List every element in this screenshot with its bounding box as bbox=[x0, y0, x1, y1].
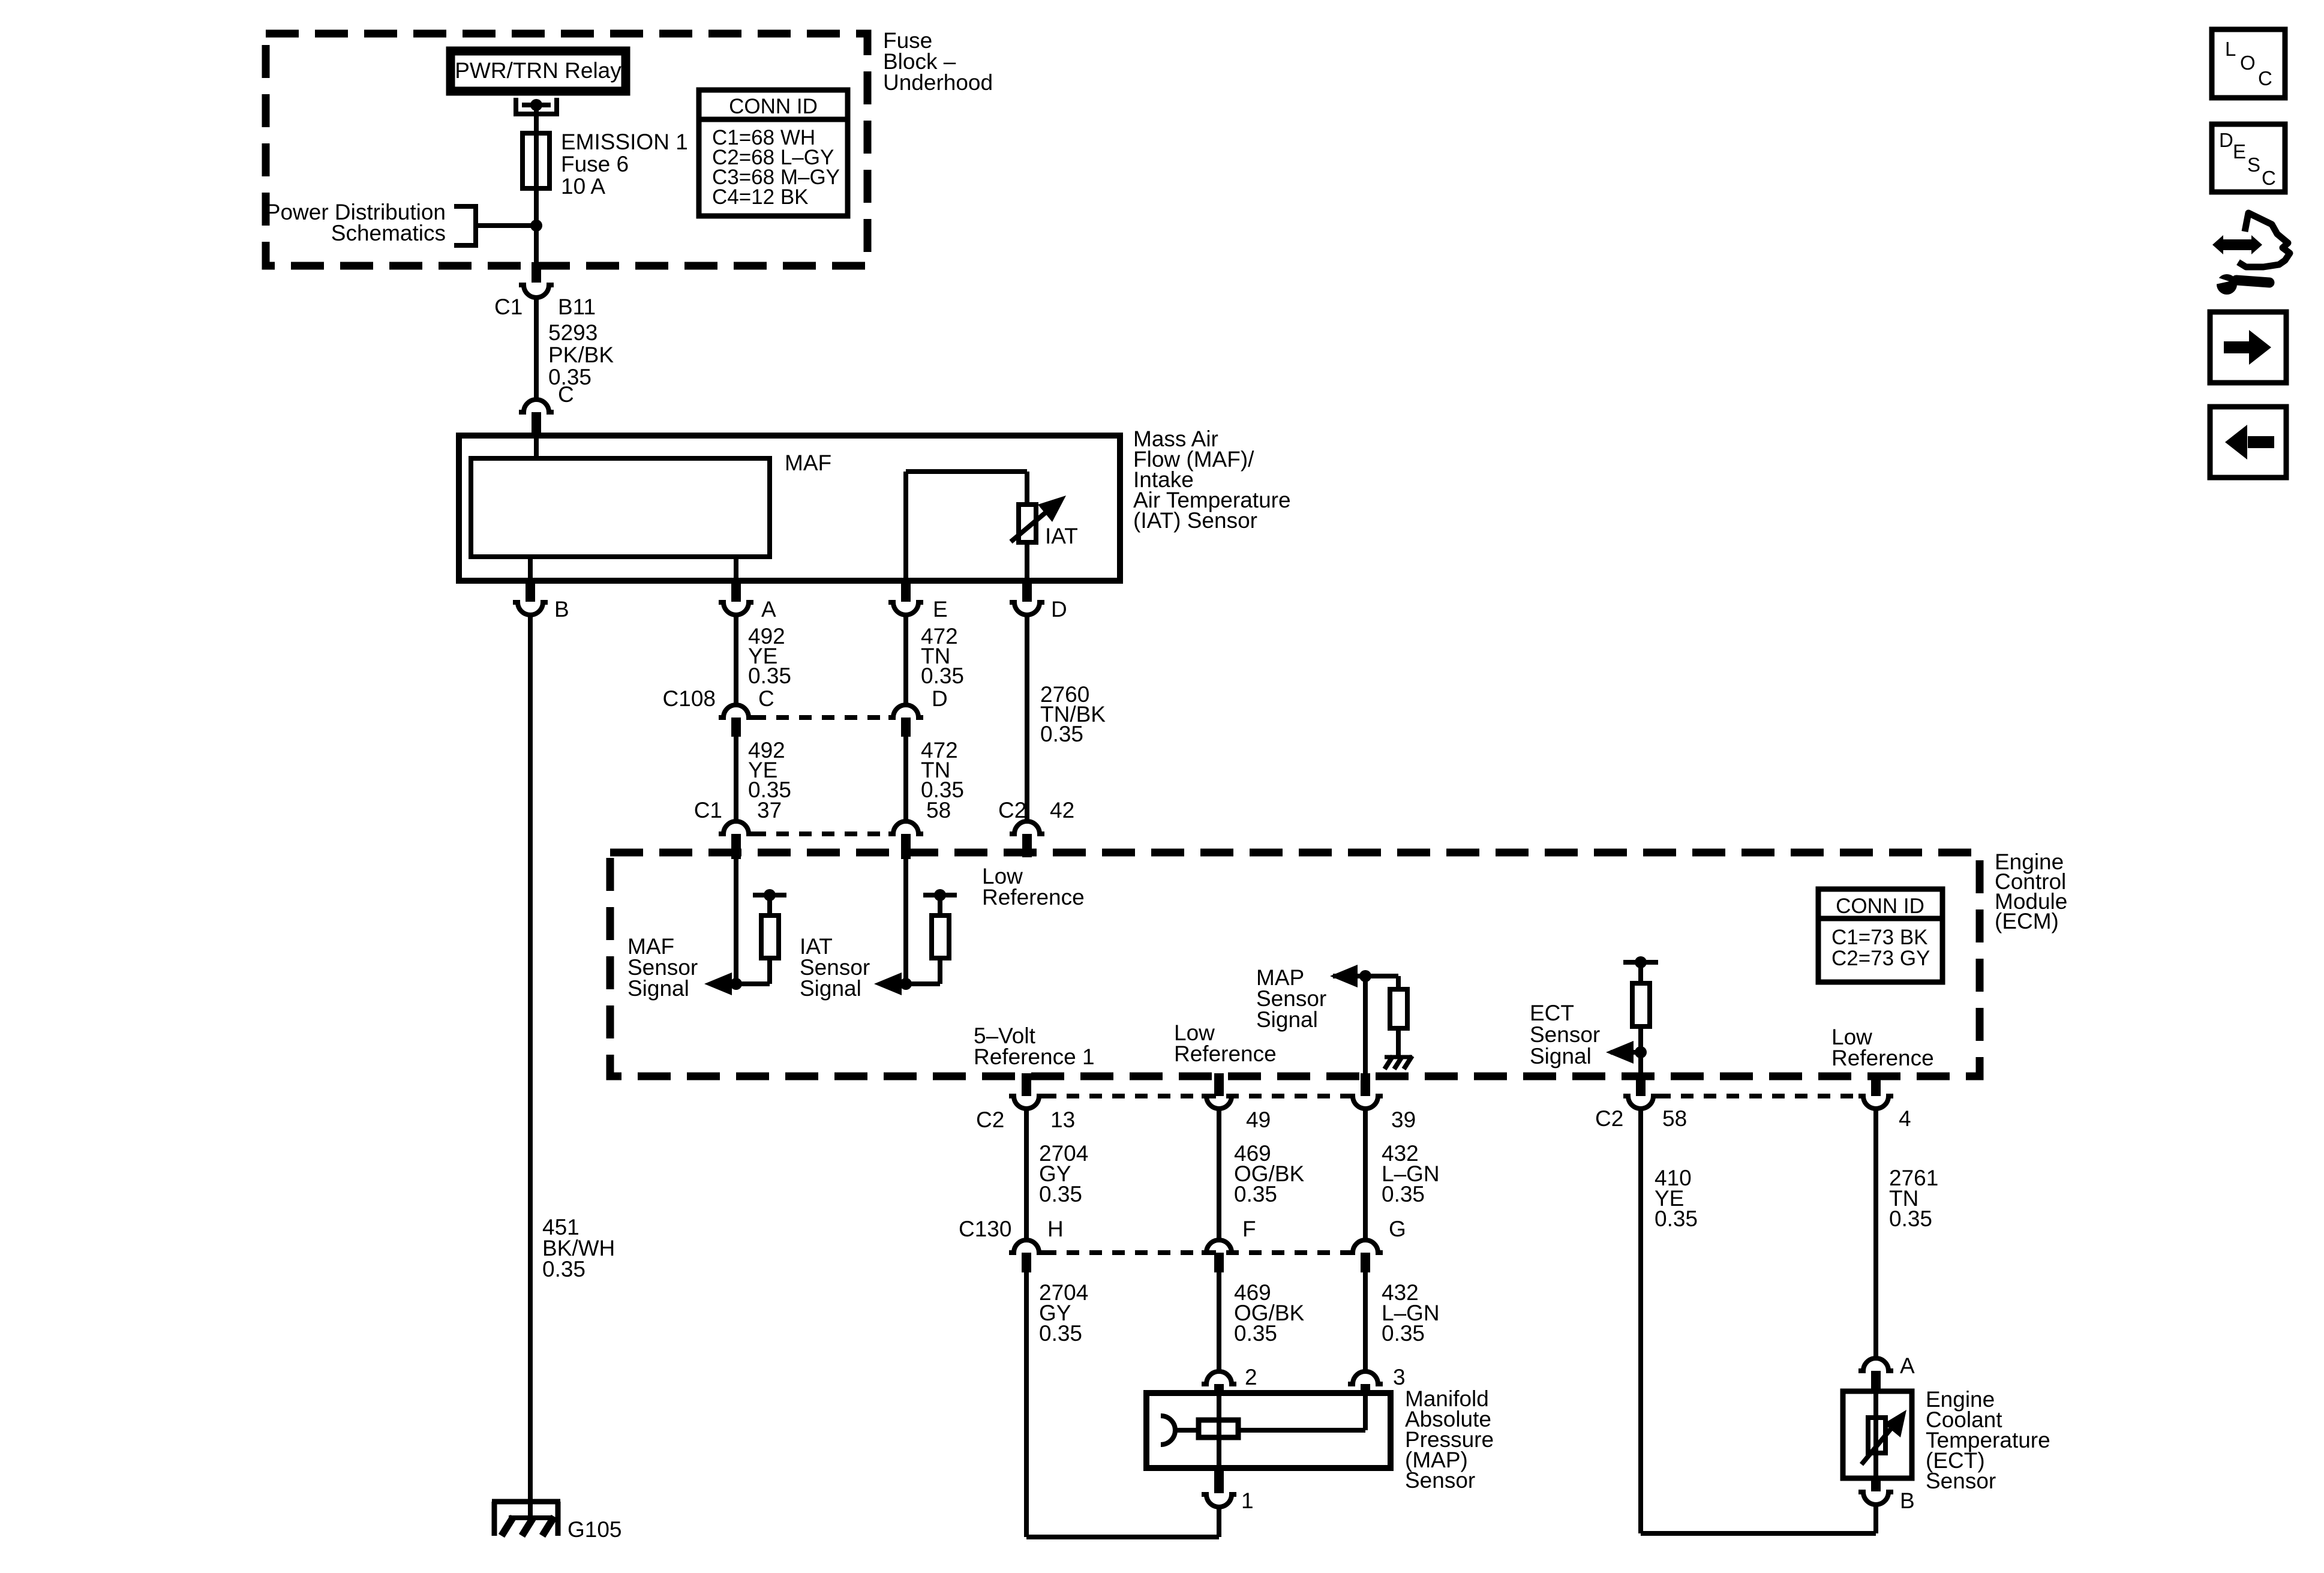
wire 469 OG/BK upper bbox=[1217, 1109, 1221, 1240]
MAF/IAT sensor outer box bbox=[459, 436, 1120, 581]
wire MAP resistor to ground bbox=[1396, 1028, 1401, 1057]
wire 5293 PK/BK bbox=[534, 298, 539, 400]
connector ECM pin 58b bbox=[1623, 1096, 1658, 1109]
svg-text:2: 2 bbox=[1245, 1365, 1257, 1389]
svg-text:4: 4 bbox=[1899, 1106, 1911, 1131]
connector MAF pin B bbox=[513, 602, 548, 615]
svg-text:C1: C1 bbox=[494, 295, 523, 319]
wire resistor upper lead IAT bbox=[938, 895, 942, 915]
wire 2704 GY upper bbox=[1024, 1109, 1029, 1240]
wire MAP signal node bbox=[1333, 974, 1398, 978]
connector C130 pin G bbox=[1348, 1240, 1383, 1253]
wire 469 OG/BK lower bbox=[1217, 1272, 1221, 1373]
stub fuse block exit pin bbox=[532, 262, 541, 283]
wire pin 37 inside ECM bbox=[734, 859, 738, 984]
stub MAF pin D bbox=[1022, 582, 1032, 602]
wire 492 YE lower bbox=[734, 737, 738, 821]
svg-text:B: B bbox=[1900, 1488, 1915, 1513]
wire MAP pin3 internal bbox=[1363, 1390, 1368, 1430]
wire MAP return to C130 H bbox=[1026, 1535, 1219, 1539]
wire 432 L-GN lower bbox=[1363, 1272, 1368, 1373]
svg-text:B: B bbox=[554, 597, 569, 622]
svg-text:F: F bbox=[1242, 1217, 1256, 1241]
svg-text:C: C bbox=[558, 382, 574, 407]
arrow MAF sensor signal bbox=[704, 972, 732, 995]
wire resistor lower lead bbox=[767, 958, 772, 984]
stub MAP pin 1 bbox=[1214, 1471, 1224, 1493]
svg-text:C1=73 BKC2=73 GY: C1=73 BKC2=73 GY bbox=[1831, 926, 1930, 970]
stub pin C bbox=[532, 412, 541, 433]
connector C1 mate dashes bbox=[753, 831, 888, 836]
wire relay to fuse to border bbox=[534, 105, 539, 263]
left arrow icon box bbox=[2210, 407, 2286, 478]
stub pin 37 bbox=[731, 834, 741, 859]
wire 492 YE upper bbox=[734, 615, 738, 705]
wire IAT resistor to pin D bbox=[1025, 542, 1029, 584]
fuse block underhood dashed box bbox=[266, 34, 867, 266]
svg-text:S: S bbox=[2247, 154, 2260, 176]
wire pin 58 C2 inside ECM bbox=[1638, 1052, 1643, 1076]
connector C108 pin D bbox=[888, 705, 923, 718]
svg-text:58: 58 bbox=[926, 798, 951, 822]
svg-text:G105: G105 bbox=[568, 1517, 622, 1542]
connector ECM pin 13 bbox=[1009, 1096, 1044, 1109]
stub ECM pin 13 bbox=[1022, 1073, 1031, 1096]
svg-text:C1: C1 bbox=[694, 798, 722, 822]
stub MAP pin 2 bbox=[1214, 1384, 1224, 1392]
svg-text:MAF: MAF bbox=[785, 451, 831, 475]
connector C108 mate dashes bbox=[753, 715, 888, 720]
wire resistor lower lead IAT bbox=[938, 958, 942, 984]
supply bar ECT bbox=[1623, 960, 1658, 965]
resistor MAP pull-up bbox=[1390, 989, 1407, 1028]
wire ECT pin B down bbox=[1873, 1505, 1878, 1533]
supply bar IAT bbox=[923, 893, 957, 897]
svg-text:G: G bbox=[1389, 1217, 1406, 1241]
svg-text:13: 13 bbox=[1050, 1107, 1075, 1132]
svg-text:A: A bbox=[1900, 1353, 1915, 1378]
stub MAF pin E bbox=[901, 582, 911, 602]
connector ECM pin 49 bbox=[1202, 1096, 1236, 1109]
wire 432 L-GN upper bbox=[1363, 1109, 1368, 1240]
svg-text:42: 42 bbox=[1050, 798, 1074, 822]
wire 410 YE bbox=[1638, 1109, 1643, 1533]
wire ECT through thermistor bbox=[1873, 1389, 1878, 1481]
svg-text:D: D bbox=[2219, 129, 2233, 151]
wire MAF element to pin B bbox=[528, 557, 533, 584]
fuse F6 EMISSION 1 10A bbox=[523, 133, 550, 188]
wire IAT to resistor bbox=[1025, 472, 1029, 505]
stub MAF pin A bbox=[731, 582, 741, 602]
svg-text:L: L bbox=[2225, 38, 2236, 60]
wire 451 BK/WH to G105 bbox=[528, 615, 533, 1519]
svg-text:D: D bbox=[932, 686, 948, 711]
supply bar MAF bbox=[753, 893, 786, 897]
svg-text:E: E bbox=[933, 597, 948, 622]
wire pin C to MAF element bbox=[534, 433, 539, 458]
stub C130 pin F bbox=[1214, 1253, 1224, 1272]
resistor IAT thermistor bbox=[1019, 505, 1036, 542]
connector MAF pin A bbox=[719, 602, 753, 615]
stub ECT pin A bbox=[1871, 1371, 1881, 1390]
wire MAF signal node bbox=[732, 981, 770, 986]
junction supply bar ECT bbox=[1635, 956, 1647, 968]
right arrow icon box bbox=[2210, 312, 2286, 383]
connector C1 terminal B11 bbox=[519, 285, 554, 298]
wire 2704 GY lower bbox=[1024, 1272, 1029, 1537]
relay output terminal bracket bbox=[516, 98, 557, 114]
resistor ECT thermistor bbox=[1868, 1418, 1885, 1453]
connector MAF pin E bbox=[888, 602, 923, 615]
stub ECM pin 58b bbox=[1636, 1073, 1646, 1096]
svg-text:CONN ID: CONN ID bbox=[1836, 894, 1924, 918]
relay K (PWR/TRN Relay) box bbox=[451, 51, 626, 91]
wire 472 TN lower bbox=[903, 737, 908, 821]
wire MAP pin1 down bbox=[1217, 1507, 1221, 1537]
power distribution reference bracket bbox=[454, 206, 476, 245]
connector C130 pin H bbox=[1009, 1240, 1044, 1253]
stub ECM pin 4 bbox=[1871, 1073, 1881, 1096]
MAP sensing element bbox=[1199, 1420, 1238, 1437]
stub MAF pin B bbox=[526, 582, 535, 602]
svg-text:H: H bbox=[1047, 1217, 1064, 1241]
stub C108 pin C bbox=[731, 718, 741, 737]
relay contact bar bbox=[522, 103, 551, 107]
arrow ECT sensor signal bbox=[1606, 1041, 1634, 1064]
svg-text:C: C bbox=[2258, 67, 2272, 89]
stub C108 pin D bbox=[901, 718, 911, 737]
ECT sensor box bbox=[1843, 1391, 1912, 1478]
svg-text:37: 37 bbox=[757, 798, 782, 822]
wire to power distribution bracket bbox=[476, 223, 536, 228]
wire pin 39 inside ECM bbox=[1363, 976, 1368, 1076]
svg-text:EngineControlModule(ECM): EngineControlModule(ECM) bbox=[1995, 849, 2067, 933]
ECT variable-resistance arrow bbox=[1861, 1427, 1893, 1464]
connector C130 mate dashes bbox=[1044, 1250, 1348, 1255]
wire MAP element to pin3 bbox=[1238, 1428, 1365, 1433]
MAP pressure port symbol bbox=[1161, 1416, 1175, 1445]
LOC icon box bbox=[2212, 29, 2285, 98]
ground G105 symbol bbox=[492, 1502, 560, 1536]
connector MAP pin 3 bbox=[1348, 1371, 1383, 1384]
wire port to element bbox=[1175, 1428, 1199, 1433]
connector ECM C2 pin 42 bbox=[1010, 821, 1044, 834]
wire MAP resistor upper lead bbox=[1396, 976, 1401, 989]
connector MAF pin D bbox=[1010, 602, 1044, 615]
svg-text:PWR/TRN Relay: PWR/TRN Relay bbox=[455, 58, 621, 83]
svg-text:58: 58 bbox=[1662, 1106, 1687, 1131]
junction MAF signal bbox=[730, 978, 742, 990]
junction IAT signal bbox=[900, 978, 912, 990]
connector ECM C1 pin 58 bbox=[888, 821, 923, 834]
IAT variable-resistance arrow bbox=[1011, 511, 1048, 542]
DESC icon box bbox=[2212, 124, 2285, 192]
wire IAT signal node bbox=[902, 981, 940, 986]
stub MAP pin 3 bbox=[1361, 1384, 1370, 1392]
svg-text:D: D bbox=[1051, 597, 1067, 622]
resistor IAT pull-up bbox=[932, 915, 949, 958]
stub ECM pin 39 bbox=[1361, 1073, 1370, 1096]
stub ECM pin 49 bbox=[1214, 1073, 1224, 1096]
svg-text:O: O bbox=[2240, 52, 2256, 74]
svg-text:C130: C130 bbox=[959, 1217, 1011, 1241]
svg-text:IAT: IAT bbox=[1045, 524, 1078, 548]
junction relay terminal bbox=[530, 99, 542, 111]
junction supply bar MAF bbox=[764, 889, 776, 901]
svg-text:C2: C2 bbox=[998, 798, 1026, 822]
junction node to power distribution bbox=[530, 220, 542, 232]
wire MAP pin2 through element bbox=[1217, 1390, 1221, 1471]
connector C108 pin C bbox=[719, 705, 753, 718]
wire pin 58 inside ECM bbox=[903, 859, 908, 984]
ground internal ECM bbox=[1385, 1055, 1412, 1059]
connector C2 mate dashes bottom bbox=[1044, 1094, 1348, 1098]
stub C130 pin H bbox=[1022, 1253, 1031, 1272]
svg-text:49: 49 bbox=[1246, 1107, 1271, 1132]
fuse block CONN ID table bbox=[699, 90, 848, 216]
svg-text:C2: C2 bbox=[1595, 1106, 1623, 1131]
svg-text:CONN ID: CONN ID bbox=[729, 95, 818, 118]
arrow MAP sensor signal bbox=[1330, 965, 1358, 987]
wire pin E up bbox=[903, 472, 908, 584]
stub C130 pin G bbox=[1361, 1253, 1370, 1272]
arrow IAT sensor signal bbox=[874, 972, 902, 995]
connector ECT pin B bbox=[1858, 1492, 1893, 1505]
connector MAP pin 2 bbox=[1202, 1371, 1236, 1384]
wire 2761 TN bbox=[1873, 1109, 1878, 1359]
stub pin 42 bbox=[1022, 834, 1032, 857]
MAF element inner box bbox=[471, 458, 770, 557]
junction supply bar IAT bbox=[934, 889, 946, 901]
svg-text:E: E bbox=[2233, 140, 2246, 163]
junction MAP signal bbox=[1359, 970, 1371, 982]
junction ECT signal bbox=[1635, 1046, 1647, 1058]
connector ECM C1 pin 37 bbox=[719, 821, 753, 834]
wire ECT resistor upper lead bbox=[1638, 962, 1643, 983]
svg-text:C: C bbox=[758, 686, 774, 711]
wire MAF element to pin A bbox=[734, 557, 738, 584]
wire ECT signal node bbox=[1611, 1050, 1641, 1055]
wire 2760 TN/BK bbox=[1025, 615, 1029, 821]
resistor ECT pull-up bbox=[1632, 983, 1650, 1026]
wire resistor upper lead bbox=[767, 895, 772, 915]
wire 472 TN upper bbox=[903, 615, 908, 705]
stub pin 58 bbox=[901, 834, 911, 859]
svg-text:1: 1 bbox=[1241, 1488, 1254, 1513]
connector ECM pin 4 bbox=[1858, 1096, 1893, 1109]
connector MAP pin 1 bbox=[1202, 1494, 1236, 1507]
connector C130 pin F bbox=[1202, 1240, 1236, 1253]
connector ECT pin A bbox=[1858, 1358, 1893, 1371]
stub ECT pin B bbox=[1871, 1481, 1881, 1491]
ECM CONN ID table bbox=[1818, 889, 1942, 982]
ECM dashed box bbox=[610, 852, 1980, 1076]
vehicle/wrench icon bbox=[2212, 235, 2223, 254]
connector C2 mate dashes ect bbox=[1658, 1094, 1858, 1098]
wire ECT return to pin 58 bbox=[1641, 1531, 1876, 1536]
svg-text:C: C bbox=[2262, 167, 2276, 189]
svg-text:B11: B11 bbox=[558, 295, 596, 319]
svg-text:3: 3 bbox=[1393, 1365, 1406, 1389]
wire ECT resistor lower lead bbox=[1638, 1026, 1643, 1052]
svg-text:A: A bbox=[761, 597, 776, 622]
connector pin C into MAF bbox=[519, 400, 554, 412]
wire IAT top bbox=[906, 469, 1027, 474]
svg-text:39: 39 bbox=[1391, 1107, 1416, 1132]
connector ECM pin 39 bbox=[1348, 1096, 1383, 1109]
svg-text:C108: C108 bbox=[663, 686, 716, 711]
MAP sensor box bbox=[1146, 1393, 1391, 1468]
svg-text:C2: C2 bbox=[976, 1107, 1004, 1132]
resistor MAF pull-up bbox=[761, 915, 779, 958]
